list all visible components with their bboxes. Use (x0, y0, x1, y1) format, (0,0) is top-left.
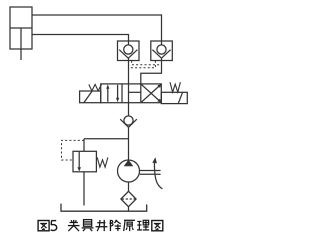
wire P-line upper (128, 103, 130, 116)
wire B-line (141, 58, 162, 84)
valve position divider 2 (140, 84, 142, 103)
wire pump to filter (128, 182, 130, 191)
wire relief inlet (83, 139, 85, 152)
pump control arrow (154, 162, 162, 189)
wire relief branch (84, 138, 129, 140)
pilot check valve CV2 body (151, 41, 173, 61)
CV1 pilot line (132, 61, 162, 65)
right box diagonal 1 (141, 86, 159, 102)
pilot check valve CV1 body (118, 41, 140, 61)
X arrowhead top (157, 84, 161, 88)
directional valve envelope (101, 84, 162, 103)
caption char 夹 (69, 221, 77, 223)
left box up arrow (107, 87, 109, 102)
check valve CV3 ball (124, 116, 133, 125)
solenoid left box (80, 91, 101, 103)
tank (61, 204, 147, 212)
wire cap-end line (32, 15, 162, 45)
caption char 原 (124, 219, 135, 221)
pump shaft line 1 (140, 170, 161, 172)
hydraulic cylinder barrel (10, 7, 32, 49)
relief valve body (73, 151, 96, 172)
left box down arrowhead (116, 98, 119, 102)
middle box vertical (128, 84, 130, 103)
CV2 ball (157, 45, 166, 54)
wire rod-end line (32, 35, 129, 45)
solenoid right box (161, 92, 187, 103)
relief valve arrowhead (77, 167, 81, 171)
wire filter to tank (128, 207, 130, 212)
CV1 ball (124, 45, 133, 54)
cylinder piston rod (20, 28, 22, 60)
wire A-line (128, 58, 130, 84)
spring left (89, 84, 102, 91)
cylinder piston (10, 27, 32, 29)
left box up arrowhead (106, 84, 109, 88)
valve position divider 1 (121, 84, 123, 103)
right box diagonal 2 (141, 84, 159, 100)
wire relief outlet (83, 172, 85, 206)
filter diamond (121, 191, 136, 206)
caption char 5 (51, 220, 56, 222)
left box down arrow (117, 85, 119, 100)
CV1 seat (119, 50, 137, 59)
relief valve flow arrow (78, 152, 80, 170)
caption char 降 (109, 220, 111, 231)
CV2 pilot line (129, 61, 156, 68)
middle box stub (129, 91, 141, 93)
caption char 图(2) (152, 221, 163, 231)
wire P-line lower (128, 127, 130, 160)
pump control arrowhead (152, 157, 157, 163)
caption char 具 (84, 220, 92, 227)
relief pilot line (62, 140, 85, 160)
solenoid right diagonal (178, 92, 182, 103)
caption char 图(1) (38, 221, 49, 231)
spring right (170, 82, 180, 92)
caption char 升 (97, 222, 105, 224)
pump triangle (124, 160, 134, 167)
solenoid left diagonal (84, 91, 92, 103)
caption char 理 (137, 220, 141, 222)
filter element (122, 198, 135, 200)
X arrowhead bottom (157, 99, 161, 103)
pump shaft line 2 (140, 173, 161, 175)
figure caption 图5 夹具升降原理图 (38, 220, 163, 232)
CV3 seat (120, 119, 137, 127)
CV2 seat (152, 50, 170, 59)
pump circle (118, 160, 140, 182)
relief valve spring (97, 157, 108, 167)
